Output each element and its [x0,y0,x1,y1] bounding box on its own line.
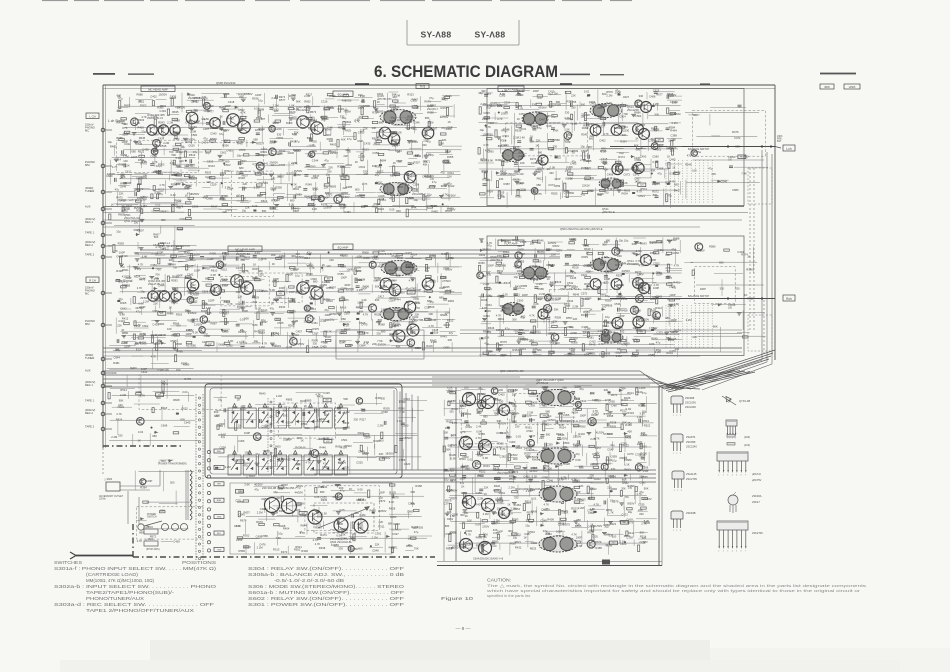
svg-text:2.2M: 2.2M [486,349,493,353]
svg-text:R461: R461 [380,198,387,202]
svg-text:R633: R633 [530,547,537,551]
svg-text:47μ: 47μ [270,306,275,310]
svg-text:500: 500 [735,144,740,148]
resistor [275,120,281,122]
svg-text:C318: C318 [591,413,598,417]
svg-text:4.7K: 4.7K [561,475,567,479]
dual transistor Q513 [590,104,622,118]
wire [377,104,385,106]
svg-text:R559: R559 [605,298,612,302]
wire [439,154,452,156]
svg-text:40K: 40K [423,162,428,166]
wire [188,302,196,304]
transistor [632,165,638,171]
ground [617,190,622,192]
wire [245,333,247,340]
svg-text:47μ: 47μ [389,197,394,201]
svg-text:9.8K: 9.8K [120,313,126,317]
svg-text:22K: 22K [590,134,595,138]
svg-text:C434: C434 [201,141,208,145]
transistor Q306c [171,291,181,301]
svg-text:R474: R474 [320,533,327,537]
resistor [257,312,259,320]
svg-text:0.08: 0.08 [546,124,552,128]
wire [376,191,392,193]
svg-text:2.2M: 2.2M [363,256,370,260]
svg-text:C359: C359 [546,442,553,446]
svg-text:C339: C339 [529,404,536,408]
svg-text:TUNER: TUNER [85,356,94,360]
wire [513,124,515,143]
svg-text:680: 680 [379,121,384,125]
wire [550,103,567,105]
transistor Q303 [158,125,168,135]
svg-text:2.2M: 2.2M [514,309,521,313]
svg-text:R640: R640 [414,301,421,305]
svg-text:20/50V: 20/50V [551,298,560,302]
wire [565,156,567,162]
wire [515,108,540,110]
wire [257,179,274,181]
svg-text:R452: R452 [441,252,448,256]
wire [619,122,638,124]
svg-text:1K: 1K [410,255,413,259]
ground [631,114,636,116]
svg-text:22K: 22K [407,175,412,179]
resistor [407,152,413,154]
transistor Q510 [611,125,622,136]
svg-text:C333: C333 [483,314,490,318]
svg-text:C335: C335 [411,99,418,103]
label Q504 [500,369,524,373]
wire [399,195,401,208]
svg-text:R625: R625 [747,296,754,300]
Lch output box [783,145,795,151]
svg-text:47μ: 47μ [430,153,435,157]
svg-text:680: 680 [330,106,335,110]
resistor [308,203,314,205]
svg-text:47μ: 47μ [203,137,208,141]
wire diagonal [669,353,773,387]
svg-text:1K: 1K [272,262,275,266]
svg-text:10K: 10K [428,312,433,316]
resistor [141,209,143,214]
svg-text:R332: R332 [321,485,328,489]
svg-text:330: 330 [735,287,740,291]
dual transistor Q316 [381,261,417,276]
svg-text:3: 3 [681,490,682,492]
svg-text:1K: 1K [636,348,639,352]
svg-text:4.7K: 4.7K [415,306,421,310]
svg-text:22/50V: 22/50V [440,115,449,119]
wire [325,98,334,100]
wire [305,153,323,155]
wire [491,171,493,182]
svg-text:R520: R520 [139,332,146,336]
svg-text:70K: 70K [155,273,160,277]
svg-text:C648: C648 [312,345,319,349]
svg-text:100: 100 [134,220,139,224]
svg-text:R601: R601 [218,433,225,437]
svg-text:10μ: 10μ [107,140,112,144]
wire dashed [749,168,751,330]
svg-text:0.08: 0.08 [577,544,583,548]
resistor [186,110,192,112]
svg-text:44/50V: 44/50V [622,269,631,273]
wire [241,258,249,260]
wire [373,144,399,146]
svg-text:1K: 1K [744,293,747,297]
wire [184,277,186,296]
wire [499,137,501,153]
wire [618,185,637,187]
svg-text:9.9K: 9.9K [360,94,366,98]
wire [648,115,673,117]
svg-text:10μ: 10μ [116,230,121,234]
svg-text:C538: C538 [614,302,621,306]
ground [168,187,173,189]
svg-text:3.6K: 3.6K [674,302,680,306]
svg-text:C316: C316 [321,100,328,104]
svg-text:Q902 2SC2238-Y Q910: Q902 2SC2238-Y Q910 [522,487,550,491]
wire [411,139,413,152]
wire bus [140,257,560,259]
svg-text:200: 200 [464,385,469,389]
resistor [257,184,263,186]
resistor [406,209,408,217]
svg-text:22K: 22K [585,113,590,117]
svg-text:R318: R318 [296,289,303,293]
svg-text:47μ: 47μ [414,530,419,534]
svg-text:1.3K: 1.3K [637,415,643,419]
svg-text:2.2M: 2.2M [430,318,437,322]
capacitor [588,155,590,159]
svg-text:600: 600 [358,546,363,550]
svg-text:47μ: 47μ [172,173,177,177]
transistor Q317b [388,133,400,145]
svg-text:10μ: 10μ [481,392,486,396]
svg-text:R623: R623 [622,444,629,448]
svg-text:400: 400 [342,99,347,103]
svg-text:C447: C447 [236,266,243,270]
resistor [619,126,625,128]
transistor Q512r [633,278,644,289]
svg-text:C426: C426 [378,194,385,198]
wire [202,265,215,267]
wire [599,159,616,161]
svg-text:R543: R543 [158,121,165,125]
terminal TAPE 2 [85,253,112,259]
svg-text:680: 680 [576,518,581,522]
svg-text:80K: 80K [713,324,718,328]
svg-text:C629: C629 [223,251,230,255]
wire [358,104,369,106]
ground [133,267,138,269]
svg-text:R579: R579 [445,209,452,213]
svg-text:R501: R501 [117,109,124,113]
svg-text:2.2M: 2.2M [242,279,249,283]
wire [307,169,330,171]
svg-text:4.7K: 4.7K [362,182,368,186]
wire [429,119,431,127]
wire bus diagonal [652,379,682,389]
svg-text:47μ: 47μ [347,137,352,141]
svg-text:R637: R637 [159,289,166,293]
resistor [392,195,394,202]
svg-text:EQ AMP: EQ AMP [338,245,349,249]
schematic top border dashes [355,83,710,85]
svg-text:47μ: 47μ [605,294,610,298]
svg-text:2.2M: 2.2M [527,411,534,415]
wire [618,159,620,171]
label Q501 [124,213,144,223]
svg-text:C597: C597 [174,181,181,185]
svg-text:1K: 1K [120,176,123,180]
svg-text:R371: R371 [530,157,537,161]
wire bus diagonal [646,375,673,389]
svg-text:C525: C525 [356,460,363,464]
svg-text:2SK2706: 2SK2706 [752,531,763,535]
resistor [339,106,341,112]
wire [664,169,666,179]
wire [667,146,682,148]
svg-text:R548: R548 [625,434,632,438]
resistor [253,290,255,296]
svg-text:800: 800 [396,209,401,213]
svg-text:2.2M: 2.2M [381,308,388,312]
wire [535,110,556,112]
svg-text:32/50V: 32/50V [329,312,338,316]
wire [257,154,280,156]
svg-text:R555: R555 [551,191,558,195]
svg-text:C556: C556 [603,184,610,188]
svg-text:4.7K: 4.7K [508,511,514,515]
ref box [158,312,166,316]
svg-text:C591: C591 [218,158,225,162]
wire [646,92,648,99]
transistor Q318b [389,284,401,296]
svg-text:500: 500 [291,93,296,97]
svg-text:R376: R376 [732,130,739,134]
svg-text:R677: R677 [656,92,663,96]
wire [479,92,493,94]
capacitor [255,154,259,156]
resistor [202,301,204,309]
label MC HEAD AMP R [228,246,262,252]
svg-text:R352: R352 [362,204,369,208]
svg-text:GRN: GRN [217,517,222,519]
wire [170,307,172,315]
junction [498,112,500,114]
svg-text:1K: 1K [171,256,174,260]
transistor Q515 [612,163,623,174]
svg-text:2.2M: 2.2M [111,435,118,439]
svg-text:0.06: 0.06 [483,456,489,460]
wire [595,188,597,206]
wire [324,203,339,205]
resistor [390,105,396,107]
resistor [666,194,668,202]
svg-text:R323: R323 [524,452,531,456]
svg-text:90K: 90K [184,164,189,168]
svg-text:R552: R552 [294,547,301,551]
wire supply diag [690,362,767,389]
wire [330,129,332,135]
svg-text:330: 330 [372,164,377,168]
svg-text:0.01: 0.01 [255,251,261,255]
wire [632,164,651,166]
svg-text:4.7K: 4.7K [154,277,160,281]
svg-text:5/50V: 5/50V [445,267,452,271]
wire [220,320,238,322]
svg-text:R401: R401 [424,284,431,288]
wire [223,130,225,148]
wire [238,160,257,162]
svg-text:C611: C611 [125,170,132,174]
capacitor [446,149,448,153]
wire [203,208,221,210]
svg-text:4: 4 [732,475,733,477]
terminal MM [85,160,112,168]
svg-text:C681: C681 [295,192,302,196]
transistor Q514r [538,309,548,319]
wire [568,175,592,177]
svg-text:SY-Λ88: SY-Λ88 [421,30,452,40]
transistor Q301 [147,125,157,135]
svg-text:R640: R640 [259,392,266,396]
wire [386,185,388,194]
svg-text:47μ: 47μ [566,284,571,288]
ground [407,141,412,143]
pad [555,156,558,158]
wire [188,169,200,171]
wire [555,171,557,181]
svg-text:2.2M: 2.2M [154,191,161,195]
svg-text:22K: 22K [670,149,675,153]
svg-text:680: 680 [152,434,157,438]
resistor [516,125,522,127]
diode [517,92,521,95]
svg-text:C588: C588 [648,353,655,357]
svg-text:100P: 100P [379,491,385,495]
svg-text:22K: 22K [415,312,420,316]
wire [219,115,221,129]
svg-text:6.1K: 6.1K [624,463,630,467]
svg-text:1K: 1K [299,530,302,534]
label Q307 [296,105,311,112]
svg-text:2.2M: 2.2M [578,506,585,510]
transistor pair Q311b [238,121,251,134]
transistor Q317a [379,127,391,139]
terminal TUNER [85,186,112,194]
svg-text:R415: R415 [406,251,413,255]
ref box [655,138,663,142]
svg-text:C487: C487 [611,403,618,407]
svg-text:2SA1145: 2SA1145 [686,472,697,476]
svg-text:REC 1: REC 1 [85,383,93,387]
svg-text:C585: C585 [337,272,344,276]
svg-text:C418: C418 [119,199,126,203]
wire [601,134,628,136]
svg-text:R405: R405 [120,301,127,305]
svg-text:0.02: 0.02 [171,193,177,197]
svg-text:2: 2 [723,475,724,477]
capacitor [242,301,244,305]
svg-text:R622: R622 [372,137,379,141]
terminal TAPE 1 [85,399,112,405]
svg-text:R481: R481 [448,299,455,303]
svg-text:C625: C625 [236,302,243,306]
svg-text:4.7K: 4.7K [236,524,242,528]
dashed box right R [748,315,772,351]
svg-text:22K: 22K [379,520,384,524]
wire [417,184,419,193]
svg-text:47μ: 47μ [137,267,142,271]
wire [203,161,223,163]
wire [353,202,355,213]
pad [618,94,621,96]
svg-text:4.7K: 4.7K [305,461,311,465]
terminal AUX [85,369,112,375]
svg-text:R630: R630 [500,431,507,435]
resistor [552,115,558,117]
svg-text:50K: 50K [262,209,267,213]
svg-text:100P: 100P [289,290,295,294]
dual fet Q506 [522,266,548,280]
svg-text:7: 7 [745,551,746,553]
transistor Q322b [404,301,416,313]
svg-text:R399: R399 [340,445,347,449]
wire rail [488,148,679,150]
svg-text:(100): (100) [744,435,750,439]
svg-text:C340: C340 [210,131,217,135]
wire [601,104,619,106]
wire bus [103,374,646,376]
svg-text:44/50V: 44/50V [107,172,116,176]
svg-text:330: 330 [497,254,502,258]
resistor [254,120,260,122]
svg-text:C393: C393 [589,100,596,104]
svg-text:△ T601: △ T601 [158,460,166,463]
label MC HEAD AMP L [141,86,175,92]
section box [181,143,264,183]
wire [252,342,260,344]
wire [347,147,349,165]
svg-text:R621: R621 [639,194,646,198]
svg-text:100P: 100P [279,286,285,290]
svg-text:C346: C346 [583,159,590,163]
svg-text:4.7K: 4.7K [500,447,506,451]
wire [534,188,536,201]
svg-text:AUX: AUX [85,205,91,209]
scan band 3 [60,660,900,672]
svg-text:C606: C606 [520,188,527,192]
svg-text:C560: C560 [652,155,659,159]
svg-text:4.7K: 4.7K [483,143,489,147]
svg-text:47μ: 47μ [487,244,492,248]
svg-text:22K: 22K [485,335,490,339]
svg-text:39/50V: 39/50V [381,290,390,294]
svg-text:330: 330 [422,143,427,147]
svg-text:600: 600 [620,456,625,460]
svg-text:R500: R500 [459,457,466,461]
capacitor [256,133,260,135]
wire [255,165,280,167]
svg-text:R635: R635 [446,420,453,424]
svg-text:330: 330 [225,320,230,324]
svg-text:C496: C496 [607,172,614,176]
capacitor [362,99,364,103]
